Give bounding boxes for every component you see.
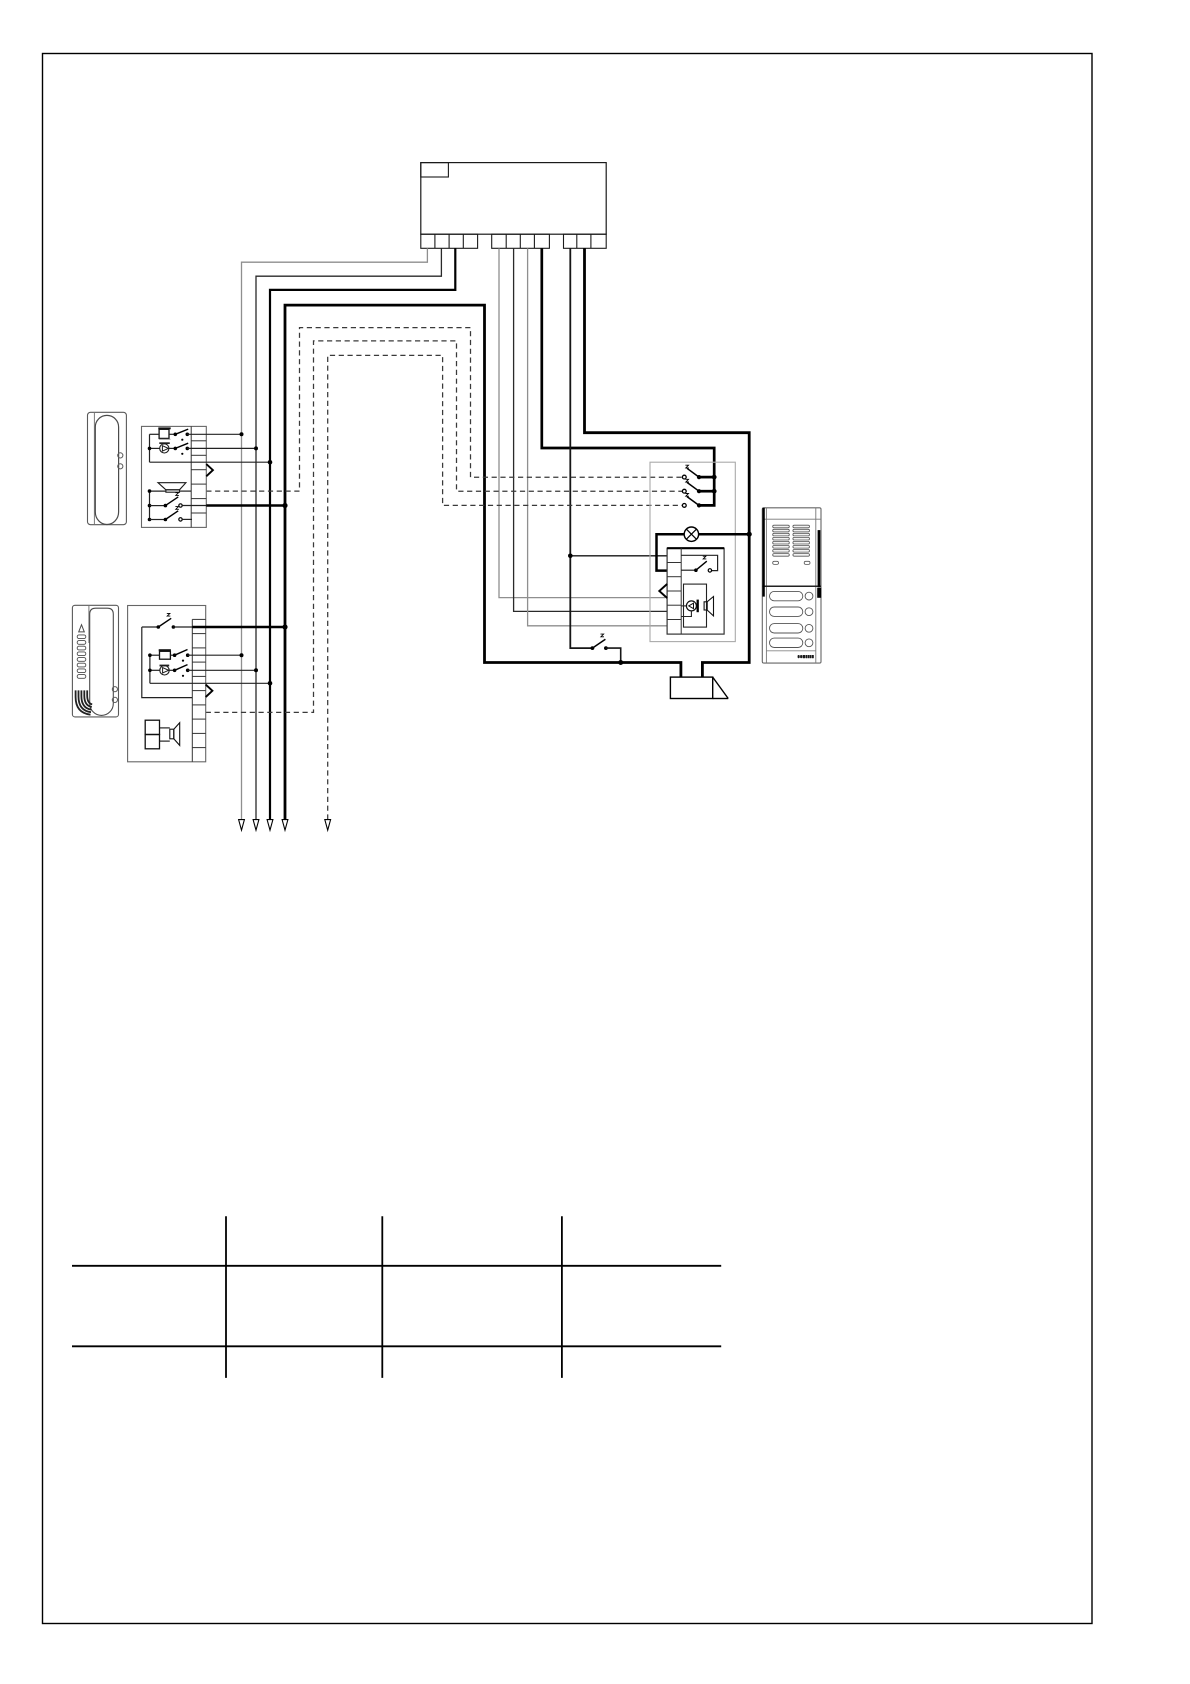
junction node on W9 <box>747 532 752 537</box>
table vertical line 3 <box>561 1216 563 1378</box>
door terminal strip <box>667 548 681 634</box>
junction node <box>268 460 273 465</box>
handset 2 loudspeaker transducer <box>145 720 159 734</box>
wire W8 stub row 1 <box>700 476 715 479</box>
handset 1 earpiece switch contact <box>186 447 190 451</box>
bold wire handset 2 terminal 1 to common bus W4 <box>192 626 285 629</box>
door pushbutton P3 <box>682 504 686 508</box>
door strip bracket <box>659 584 667 598</box>
lamp L1 feed right <box>699 533 750 536</box>
junction node <box>254 446 258 450</box>
handset 1 upper left rail <box>149 434 151 462</box>
wire handset 2 terminal 3 to riser W1 <box>188 654 242 656</box>
panel right bold edge upper <box>818 530 821 587</box>
bold wire handset 1 terminal 6 to common bus W4 <box>206 504 285 507</box>
junction node <box>148 447 152 451</box>
panel nameplate buttons <box>770 591 813 647</box>
riser arrow 4 <box>282 820 288 831</box>
door pushbutton P2 <box>682 489 686 493</box>
handset 1 earpiece row wire <box>150 447 160 449</box>
handset 2 terminal strip <box>192 619 205 761</box>
handset 1 loudspeaker <box>158 483 186 490</box>
wire W6 (thin black, terminal 6 to door strip cell 5) <box>514 248 668 611</box>
junction node <box>240 432 244 436</box>
handset 1 earpiece switch pivot <box>174 447 178 451</box>
handset 1 earpiece switch blade <box>175 443 188 448</box>
handset 1 buzzer switch contact <box>186 433 190 437</box>
panel mid seam <box>762 585 821 587</box>
control unit label window <box>421 163 449 177</box>
door amplifier switch frame <box>681 555 717 570</box>
handset 1 hook lug B <box>118 464 123 469</box>
lock-release switch blade <box>592 639 605 648</box>
junction node <box>282 624 287 629</box>
door amplifier switch <box>681 569 696 571</box>
handset 2 hook lug A <box>112 687 117 692</box>
panel left bold edge <box>762 508 764 597</box>
lamp L1 feed left <box>657 534 685 570</box>
lock-release switch squiggle <box>601 634 605 637</box>
handset 1 buzzer row wire <box>150 433 160 435</box>
handset 2 button ovals <box>77 635 86 678</box>
wire terminal 2 to riser W2 <box>187 447 256 449</box>
handset 1 hook lug A <box>118 453 123 458</box>
handset 1 lower left rail <box>149 491 151 519</box>
handset 1 schematic box <box>142 426 207 527</box>
handset 2 buzzer <box>159 649 171 651</box>
panel maker logo <box>798 655 814 658</box>
handset 1 loudspeaker row wire <box>150 490 166 492</box>
junction node <box>282 503 287 508</box>
door lock enclosure <box>670 677 712 698</box>
dashed wire D3 (riser arrow 5 to door pushbutton 3) <box>328 355 683 819</box>
handset 1 phone drawing inner panel line <box>93 412 95 524</box>
terminal block group 1 (terminals 1-4) <box>421 234 478 248</box>
door speaker unit box bold top edge <box>667 547 724 549</box>
dashed wire D2 (handset 2 line to door pushbutton 2) <box>206 341 683 713</box>
handset 2 outer left rail <box>142 627 193 698</box>
wire W3 (bold riser bus, terminal 3 to arrow 3) <box>270 248 455 819</box>
handset 1 switch row 7 <box>150 519 166 521</box>
wire handset 2 terminal 5 row to riser W3 <box>150 682 270 684</box>
table vertical line 2 <box>381 1216 383 1378</box>
lock-release switch pivot <box>591 646 595 650</box>
wire from lock-release switch to door rail <box>606 648 621 662</box>
wire W2 (thin black riser bus, terminal 2 to arrow 2) <box>256 248 441 819</box>
wire W7 (grey, terminal 7 to door strip cell 6) <box>528 248 668 626</box>
door mic hatch bar <box>697 600 699 613</box>
wire handset 2 terminal 4 to riser W2 <box>188 669 256 671</box>
handset 1 switch row 6 <box>150 505 166 507</box>
handset 1 buzzer switch blade <box>175 429 188 434</box>
lock-release switch contact <box>604 646 608 650</box>
wire terminal 3 row to riser W3 <box>150 461 271 463</box>
door loudspeaker <box>704 602 707 610</box>
handset 2 schematic box <box>128 606 206 762</box>
riser arrow 1 <box>239 820 245 831</box>
handset 2 panel divider line <box>88 605 90 643</box>
riser arrow 5 (dashed wire) <box>325 820 331 831</box>
handset 2 cord curves <box>76 690 93 714</box>
junction node on W10 <box>568 554 573 559</box>
handset 1 buzzer switch pivot <box>174 433 178 437</box>
handset 2 hook lug B <box>112 697 117 702</box>
riser arrow 2 <box>253 820 259 831</box>
handset 2 inner left rail <box>149 655 151 683</box>
wire W4 (bold common bus: arrow 4, handsets, door station rail) <box>285 305 681 820</box>
table horizontal line 1 <box>72 1265 721 1267</box>
panel grille end slots <box>773 561 779 564</box>
handset 1 phone handset body <box>95 415 118 524</box>
wire W5 (grey, terminal 5 to door strip bracket) <box>499 248 665 597</box>
terminal block group 3 (terminals 9-11) <box>564 234 607 248</box>
wire W9 (bold, terminal 10 through lamp node to door rail right) <box>585 248 750 677</box>
control unit U1 body <box>421 163 606 235</box>
lamp L1 <box>684 527 698 541</box>
riser arrow 3 <box>267 820 273 831</box>
door station outer boundary box <box>650 462 735 641</box>
handset 2 strip bracket <box>206 685 213 697</box>
wire W1 (grey riser bus, terminal 1 to arrow 1) <box>242 248 428 819</box>
door mic box <box>684 584 707 627</box>
table vertical line 1 <box>225 1216 227 1378</box>
handset 2 phone handset body <box>90 608 114 715</box>
door pushbutton P1 <box>682 475 686 479</box>
handset 1 buzzer <box>158 427 170 429</box>
wire terminal 1 to riser W1 <box>187 433 241 435</box>
handset 2 buzzer row wire <box>150 654 160 656</box>
panel inner frame lines <box>765 508 767 663</box>
wire W8 stub row 2 <box>700 490 715 493</box>
wire W8 (bold, terminal 8 to call pushbutton bus) <box>542 248 714 505</box>
handset 2 earpiece <box>160 665 170 667</box>
handset 2 top switch row <box>142 626 159 628</box>
panel speaker grille <box>773 525 810 556</box>
terminal block group 2 (terminals 5-8) <box>492 234 550 248</box>
wire W10 (terminal 9 to door strip cell 1 and lock-release switch) <box>570 248 592 648</box>
handset 1 terminal strip <box>191 426 206 527</box>
junction node on door rail <box>618 660 623 665</box>
panel body <box>762 508 821 663</box>
table horizontal line 2 <box>72 1345 721 1347</box>
handset 1 earpiece <box>159 442 170 444</box>
handset 1 strip bracket <box>206 464 213 476</box>
handset 2 call button triangle <box>79 625 85 632</box>
handset 2 earpiece row wire <box>150 669 160 671</box>
door speaker unit box <box>667 548 724 634</box>
panel right bold edge lower <box>817 588 821 598</box>
wire W10 branch to door terminal 1 <box>570 555 667 557</box>
dashed wire D1 (handset 1 speaker line to door pushbutton 1) <box>206 328 682 492</box>
handset 1 phone drawing outer case <box>88 412 127 524</box>
door microphone <box>681 605 686 607</box>
handset 2 phone drawing outer case <box>72 605 118 717</box>
